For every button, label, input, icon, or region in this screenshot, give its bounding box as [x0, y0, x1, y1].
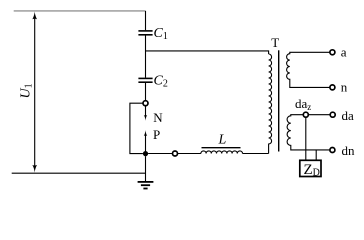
arrow N [144, 106, 147, 121]
wire top bus [14, 10, 146, 12]
transformer secondary winding a-n [287, 52, 330, 87]
capacitor C2 [138, 78, 152, 82]
terminal circle top tap [143, 101, 148, 106]
svg-text:L: L [218, 133, 227, 148]
wire dot to ground [145, 156, 147, 181]
svg-text:daz: daz [295, 96, 311, 112]
wire C2 to tap terminal [145, 83, 147, 101]
wire bottom bus [12, 172, 146, 174]
terminal n [330, 85, 335, 90]
node daz tap circle [303, 112, 308, 117]
svg-text:a: a [341, 45, 347, 60]
arrow P [144, 130, 147, 151]
terminal circle before L [173, 151, 178, 156]
transformer T primary winding [269, 54, 272, 154]
svg-text:P: P [153, 127, 160, 142]
wire dot to terminal [148, 153, 173, 155]
svg-text:n: n [341, 80, 348, 95]
terminal dn [330, 148, 335, 153]
wire daz lead to da [308, 114, 330, 116]
svg-text:ZD: ZD [304, 162, 320, 179]
svg-text:N: N [153, 110, 163, 125]
terminal a [330, 50, 335, 55]
svg-text:C2: C2 [154, 74, 168, 90]
wire terminal to inductor [177, 153, 201, 155]
terminal da [330, 112, 335, 117]
wire junction to transformer primary [146, 51, 269, 54]
ground [138, 182, 154, 189]
svg-text:C1: C1 [154, 26, 168, 42]
voltage arrow U1 [32, 12, 37, 173]
svg-text:T: T [271, 35, 279, 50]
wire inductor to primary [243, 153, 269, 155]
wire C1 to C2 [145, 36, 147, 78]
transformer core [278, 50, 280, 151]
wire bypass bracket [130, 103, 143, 153]
svg-text:da: da [342, 108, 355, 123]
inductor L [201, 148, 243, 154]
capacitor C1 [138, 31, 152, 35]
impedance box ZD [300, 160, 321, 176]
transformer tertiary winding da-dn [287, 115, 330, 150]
junction dot [143, 151, 148, 156]
svg-text:U1: U1 [19, 83, 35, 98]
wire daz to ZD box [305, 117, 307, 160]
svg-text:dn: dn [342, 143, 356, 158]
wire top bus drop to C1 [145, 11, 147, 30]
wire dn lead to ZD box [315, 150, 317, 160]
